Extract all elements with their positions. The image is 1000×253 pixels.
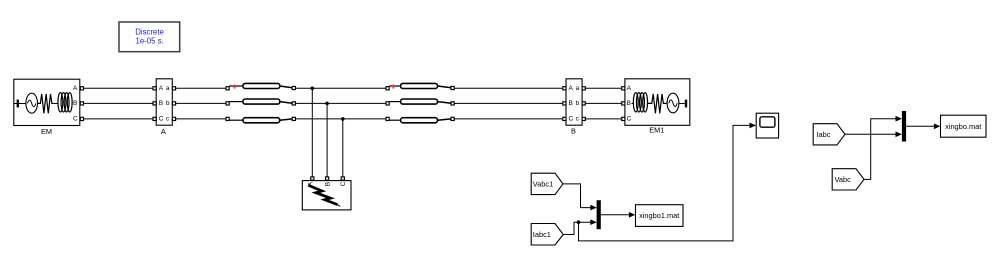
scope block [756,113,778,138]
wire B c to EM1 C [585,118,621,120]
svg-text:A: A [569,85,574,92]
three-phase VI measurement block A [153,79,176,136]
distributed line block 2 phase C [386,117,454,122]
wire A b to line1b [176,102,226,104]
A block label [161,127,166,136]
svg-text:A: A [627,85,632,92]
EM1 AC source circle [667,93,679,113]
EM1 battery terminal [679,100,686,108]
EM1 port square B [622,102,625,105]
svg-text:xingbo.mat: xingbo.mat [945,122,981,131]
wire EM C to measurement A phase C [84,118,154,120]
wire junction C to fault [342,119,344,177]
svg-text:C: C [340,181,347,186]
svg-text:Vabc: Vabc [835,175,852,184]
junction node phase B [325,102,329,106]
wire Vabc1 to mux1 [563,184,597,211]
fault port label B rotated [324,182,331,186]
EM1 port square C [622,117,625,120]
wire junction B to fault [326,103,328,176]
B block label [571,127,576,136]
EM1 resistor [648,94,667,113]
wire line1a to line2a [295,87,386,89]
EM port label B [73,100,77,107]
wire line1c to line2c [295,118,386,120]
EM port label A [73,85,78,92]
three-phase source EM [14,79,84,136]
svg-text:Iabc1: Iabc1 [533,230,551,239]
mux Mux1 [597,200,601,229]
wire EM A to measurement A phase A [84,87,154,89]
fault lightning bolt [308,185,340,206]
fault port label A rotated [308,181,315,186]
distributed line block 2 phase A [386,83,454,89]
wire line1b to line2b [295,102,386,104]
wire mux2 to xingbo.mat [906,124,940,130]
fault port square C [341,177,344,180]
svg-text:A: A [159,85,164,92]
svg-text:B: B [571,127,576,136]
svg-text:b: b [166,100,170,107]
From block Iabc1 [531,224,563,246]
red plus marker line1a [232,84,236,88]
svg-text:Discrete: Discrete [135,27,164,36]
svg-text:B: B [324,182,331,186]
wire mux1 to xingbo1.mat [601,212,636,218]
junction node phase A [311,87,315,91]
svg-text:a: a [576,85,580,92]
wire Iabc1 to mux1 [563,219,597,234]
three-phase fault block [302,177,351,210]
B block left port squares [563,87,566,121]
EM1 port label C [627,115,632,122]
svg-text:C: C [73,115,78,122]
wire EM B to measurement A phase B [84,102,154,104]
EM port label C [73,115,78,122]
EM AC source circle [26,93,38,113]
To File block xingbo.mat [941,115,987,137]
svg-text:xingbo1.mat: xingbo1.mat [639,211,679,220]
To File block xingbo1.mat [636,205,684,227]
From block Vabc [832,169,864,190]
svg-text:A: A [161,127,166,136]
wire line2b to B block [454,102,563,104]
EM battery terminal [14,100,26,108]
svg-text:b: b [576,100,580,107]
EM resistor [38,94,54,113]
wire B b to EM1 B [585,102,621,104]
wire scope input [579,123,757,241]
distributed line block 2 phase B [386,99,454,105]
wire A a to line1a [176,87,226,89]
EM1 port square A [622,87,625,90]
svg-text:B: B [73,100,77,107]
powergui block Discrete 1e-05 s. [119,22,180,52]
EM1 port label B [627,100,631,107]
distributed line block 1 phase C [226,117,295,122]
EM1 port label A [627,85,632,92]
svg-text:A: A [73,85,78,92]
wire A c to line1c [176,118,226,120]
red plus marker line2a [391,84,395,88]
wire Vabc to mux2 [864,116,902,179]
EM port square A [80,87,83,90]
EM1 label [649,125,664,134]
svg-text:B: B [627,100,631,107]
wire line2c to B block [454,118,563,120]
EM1 inductor [632,93,648,112]
svg-text:EM: EM [41,127,52,136]
svg-text:a: a [166,85,170,92]
svg-text:B: B [569,100,573,107]
From block Vabc1 [531,173,563,194]
mux Mux2 [902,111,906,142]
EM port square B [80,102,83,105]
B block right port squares [582,87,585,121]
From block Iabc [813,124,845,145]
distributed line block 1 phase B [226,99,295,105]
svg-text:B: B [159,100,163,107]
fault port label C rotated [340,181,347,186]
junction node phase C [341,117,345,121]
svg-text:C: C [159,115,164,122]
svg-text:Vabc1: Vabc1 [533,180,553,189]
svg-text:C: C [569,115,574,122]
svg-text:1e-05 s.: 1e-05 s. [136,37,164,46]
fault port square A [311,177,314,180]
EM inductor [53,93,72,112]
A block right port squares [172,87,175,121]
EM port square C [80,117,83,120]
three-phase source EM1 [622,79,690,135]
svg-text:C: C [627,115,632,122]
junction node Iabc1 [577,220,581,224]
svg-text:EM1: EM1 [649,125,664,134]
fault port square B [326,177,329,180]
distributed line block 1 phase A [226,83,295,89]
three-phase VI measurement block B [563,79,586,136]
svg-text:Iabc: Iabc [817,130,831,139]
wire B a to EM1 A [585,87,621,89]
EM label [41,127,52,136]
wire junction A to fault [311,88,313,177]
A block left port squares [153,87,156,121]
wire line2a to B block [454,87,563,89]
wire Iabc to mux2 [845,132,902,138]
